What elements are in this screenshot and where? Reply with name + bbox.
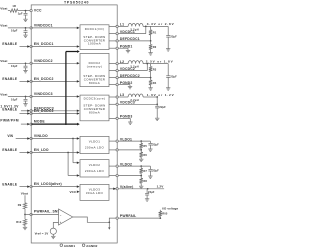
wire inductor to DCDC1 output node: [143, 26, 168, 28]
ground (22uF DCDC1): [166, 49, 170, 51]
svg-text:VCC: VCC: [34, 9, 42, 13]
svg-text:200mA LDO: 200mA LDO: [85, 169, 105, 173]
svg-text:VLDO2: VLDO2: [89, 163, 100, 167]
svg-text:R10: R10: [16, 220, 22, 224]
svg-text:AGND2: AGND2: [86, 244, 98, 248]
wire EN_DCDC2 to DCDC2 block: [31, 80, 79, 83]
pin PGND1: [109, 45, 132, 50]
pin PWRFAIL_SNS: [30, 210, 61, 216]
wire PWRFAIL to pull-up resistor: [118, 217, 161, 219]
wire DEFDCDC1 to feedback node: [118, 40, 151, 42]
pin VLDO2: [109, 162, 132, 167]
wire DEFDCDC2 to feedback node: [118, 77, 151, 79]
block DCDC3 step-down converter: [80, 95, 109, 121]
svg-text:R5: R5: [143, 144, 147, 148]
pin VDCDC1: [109, 30, 135, 35]
ground (R8): [139, 186, 143, 188]
wire ENABLE to EN_DCDC3 pin: [20, 112, 31, 115]
resistor R3 (feedback top): [149, 64, 157, 78]
svg-text:DCDC1(I/O): DCDC1(I/O): [85, 27, 105, 31]
wire PWM/PFM to MODE pin: [21, 123, 30, 126]
node Vbat (DCDC1 input): [0, 24, 30, 35]
svg-text:AGND1: AGND1: [64, 244, 76, 248]
ground (Vref): [51, 234, 55, 238]
pin V(alive): [109, 185, 133, 190]
svg-text:1000mA: 1000mA: [88, 42, 101, 46]
capacitor 22uF (DCDC3 output): [155, 104, 166, 118]
wire VIN to VINLDO pin: [16, 137, 30, 140]
svg-text:10µF: 10µF: [11, 64, 18, 68]
pin EN_LDO3(alive): [30, 182, 62, 188]
resistor 1R: [10, 4, 18, 12]
ground (22uF VLDO3): [145, 199, 149, 201]
wire MODE bus riser to DCDC2 block (bold): [66, 50, 80, 124]
pin EN_LDO: [30, 148, 49, 154]
svg-text:1µF: 1µF: [18, 11, 23, 15]
svg-text:Vbat: Vbat: [0, 92, 7, 96]
wire ENABLE to EN_DCDC1 pin: [20, 45, 31, 48]
svg-text:L3: L3: [120, 93, 124, 97]
wire ENABLE to EN_LDO3 pin: [20, 185, 31, 188]
wire PGND1 to ground: [118, 48, 128, 50]
svg-text:800mA: 800mA: [89, 81, 100, 85]
wire VLDO1 output: [118, 140, 150, 142]
svg-text:EN_DCDC2: EN_DCDC2: [34, 77, 54, 81]
svg-text:ENABLE: ENABLE: [2, 182, 17, 186]
svg-text:MODE: MODE: [34, 120, 45, 124]
pin L1: [109, 23, 124, 28]
wire EN_LDO3 to VLDO3 block: [31, 185, 79, 188]
wire EN_LDO branch to VLDO2 block: [68, 153, 80, 177]
svg-text:I/O voltage: I/O voltage: [162, 206, 178, 210]
wire L2 to inductor: [118, 63, 128, 65]
block DCDC2 step-down converter: [80, 53, 109, 86]
ground (22uF VLDO1): [148, 149, 152, 151]
wire EN_DCDC1 to DCDC1 block: [31, 45, 79, 48]
capacitor 22uF (VLDO2): [148, 166, 159, 176]
node I/O voltage: [162, 206, 178, 210]
wire PWRFAIL_SNS to comparator: [31, 214, 58, 216]
svg-text:2.5V or 1.8V: 2.5V or 1.8V: [146, 59, 174, 63]
IC body: [31, 5, 117, 243]
svg-text:VINDCDC3: VINDCDC3: [34, 92, 53, 96]
wire VLDO2 output: [118, 165, 150, 167]
ground (PGND1): [126, 50, 130, 52]
svg-text:200mA LDO: 200mA LDO: [85, 145, 105, 149]
svg-text:30mA LDO: 30mA LDO: [86, 191, 104, 195]
resistor R8 (VLDO2 divider bottom): [140, 176, 148, 187]
svg-text:VINDCDC1: VINDCDC1: [34, 24, 53, 28]
wire ENABLE to EN_LDO pin: [20, 151, 31, 154]
node 1.6V or 1.2V output: [147, 93, 175, 97]
svg-text:800mA: 800mA: [89, 110, 100, 114]
node PWM/PFM select: [0, 119, 19, 123]
svg-text:L2: L2: [120, 60, 124, 64]
wire inductor to DCDC3 output node: [143, 96, 158, 98]
svg-text:TPS650240: TPS650240: [64, 1, 89, 5]
node ENABLE (EN_DCDC1): [2, 42, 17, 46]
ground (R10): [23, 227, 27, 229]
ground (22uF DCDC3): [155, 118, 159, 120]
pin EN_DCDC3: [30, 109, 54, 115]
ground (R6): [139, 159, 143, 161]
pin VDCDC3: [109, 101, 135, 106]
node Vbat (VCC filter): [0, 6, 7, 10]
wire comparator output to PWRFAIL pin: [73, 217, 117, 223]
svg-text:ENABLE: ENABLE: [2, 148, 17, 152]
svg-text:VCC: VCC: [70, 190, 78, 194]
node Vref 1V source: [35, 228, 57, 235]
svg-text:VIN: VIN: [7, 134, 13, 138]
wire VLDO3 output to 1.2V node: [118, 188, 164, 190]
resistor R5 (VLDO1 divider top): [140, 141, 148, 150]
ground (PGND2): [128, 86, 132, 88]
svg-text:1.2V: 1.2V: [157, 184, 165, 188]
node 3.3V or 2.8V output: [147, 22, 175, 26]
wire VDCDC1 up to output node: [118, 26, 146, 33]
ground (1uF): [23, 19, 27, 21]
pin PWRFAIL: [116, 214, 136, 219]
pin PGND3: [109, 115, 132, 120]
node ENABLE (EN_LDO3 keep-alive): [2, 182, 17, 186]
wire PGND3 to ground: [118, 118, 130, 122]
svg-text:Vbat: Vbat: [0, 6, 7, 10]
pin DEFDCDC2: [109, 74, 140, 79]
node ENABLE (EN_DCDC2): [2, 77, 17, 81]
node Vbat (DCDC2 input): [0, 59, 30, 70]
svg-text:22µF: 22µF: [170, 75, 177, 79]
resistor R4 (feedback bottom): [149, 78, 157, 88]
resistor R1 (feedback top): [149, 26, 157, 41]
wire VINDCDC1 to DCDC1 block: [31, 27, 79, 30]
wire VDCDC2 up to output node: [118, 64, 147, 71]
wire feedback to divider node: [118, 175, 142, 177]
ground (10uF DCDC2): [23, 71, 27, 73]
capacitor 22uF (VLDO3): [145, 189, 155, 199]
svg-text:10µF: 10µF: [11, 97, 18, 101]
pin VINDCDC2: [30, 59, 53, 65]
wire ENABLE to EN_DCDC2 pin: [20, 80, 31, 83]
node Vbat (sense divider): [21, 192, 28, 196]
svg-text:VINDCDC2: VINDCDC2: [34, 59, 53, 63]
svg-text:VINLDO: VINLDO: [34, 134, 48, 138]
resistor R10: [16, 215, 26, 228]
capacitor 22uF (DCDC1 output): [166, 26, 177, 48]
wire L3 to inductor: [118, 96, 128, 98]
node Vbat (DCDC3 input): [0, 92, 30, 103]
wire R9 to sense node: [24, 209, 26, 216]
node 2.5V or 1.8V output: [146, 59, 174, 63]
ground (10uF DCDC3): [23, 104, 27, 106]
svg-text:ENABLE: ENABLE: [2, 77, 17, 81]
svg-text:22µF: 22µF: [152, 169, 159, 173]
svg-text:L1: L1: [120, 23, 124, 27]
pin L2: [109, 60, 124, 65]
wire 1.6V/1.3V to DEFDCDC3 pin: [21, 110, 30, 113]
pin DEFDCDC1: [109, 37, 140, 42]
svg-text:Vbat: Vbat: [0, 24, 7, 28]
wire EN_DCDC3 to DCDC3 block: [31, 112, 79, 115]
wire VINLDO branch to VLDO2 block: [73, 139, 80, 164]
svg-text:PWRFAIL_SNS: PWRFAIL_SNS: [34, 210, 61, 214]
pin AGND2: [82, 244, 97, 248]
wire Vbat to R9: [24, 195, 26, 203]
wire VINLDO to VLDO1 block: [31, 137, 79, 140]
wire VINDCDC2 to DCDC2 block: [31, 62, 79, 65]
node 1.2V keep-alive output: [157, 184, 165, 188]
open-drain pull-down arrow: [108, 222, 110, 230]
wire VDCDC3 up to output node: [118, 97, 158, 105]
svg-text:R1: R1: [153, 31, 157, 35]
svg-text:Vref = 1V: Vref = 1V: [35, 232, 49, 236]
resistor R9: [18, 203, 27, 209]
pin VINDCDC1: [30, 24, 53, 30]
svg-text:22µF: 22µF: [170, 34, 177, 38]
pin MODE: [30, 120, 45, 126]
svg-text:10µF: 10µF: [11, 29, 18, 33]
wire VCC internal feed to VLDO3 block: [70, 190, 80, 194]
wire Vref to comparator + input: [53, 223, 58, 229]
svg-text:EN_DCDC3: EN_DCDC3: [34, 109, 54, 113]
svg-text:PWRFAIL: PWRFAIL: [120, 214, 137, 218]
wire sense node to PWRFAIL_SNS pin: [25, 214, 30, 216]
block VLDO3 keep-alive LDO: [80, 184, 109, 200]
wire resistor to VCC pin: [18, 10, 30, 12]
IC part number TPS650240: [64, 1, 89, 5]
node ENABLE (EN_DCDC3): [2, 108, 17, 112]
resistor R7 (VLDO2 divider top): [140, 166, 148, 176]
node 1.6V/1.3V select: [0, 104, 19, 108]
pin VLDO1: [109, 137, 132, 142]
pin AGND1: [60, 244, 75, 248]
block VLDO2: [80, 160, 109, 177]
svg-text:1.6V or 1.2V: 1.6V or 1.2V: [147, 93, 175, 97]
wire Vbat to resistor 1R: [8, 10, 10, 12]
block VLDO1: [80, 136, 109, 153]
svg-text:22µF: 22µF: [159, 105, 166, 109]
svg-text:ENABLE: ENABLE: [2, 42, 17, 46]
capacitor 22uF (VLDO1): [148, 141, 159, 149]
svg-text:1R: 1R: [12, 4, 16, 8]
svg-text:EN_LDO: EN_LDO: [34, 148, 49, 152]
wire inductor to DCDC2 output node: [143, 63, 168, 65]
inductor 2.2uH (DCDC2): [128, 61, 143, 69]
wire feedback to divider node: [118, 149, 142, 151]
pin VINLDO: [30, 134, 48, 140]
node ENABLE (EN_LDO): [2, 148, 17, 152]
resistor R05 pull-up: [159, 210, 168, 218]
svg-text:Vbat: Vbat: [21, 192, 28, 196]
svg-text:R7: R7: [143, 169, 147, 173]
svg-text:EN_DCDC1: EN_DCDC1: [34, 42, 54, 46]
pin DEFDCDC3: [30, 106, 54, 112]
ground (22uF DCDC2): [166, 88, 170, 90]
svg-text:DCDC3(core): DCDC3(core): [84, 96, 106, 100]
wire DEFDCDC3 to DCDC3 block: [31, 110, 79, 113]
svg-text:R3: R3: [153, 68, 157, 72]
ground (PGND3): [128, 122, 132, 124]
inductor 2.2uH (DCDC1): [128, 23, 143, 31]
inductor 2.2uH (DCDC3): [128, 94, 143, 102]
svg-text:(memory): (memory): [87, 64, 102, 68]
svg-text:3.3V or 2.8V: 3.3V or 2.8V: [147, 22, 175, 26]
pin VLDO2 feedback: [109, 174, 118, 176]
svg-text:R4: R4: [153, 81, 157, 85]
svg-text:PWM/PFM: PWM/PFM: [0, 119, 19, 123]
wire PGND2 to ground: [118, 85, 130, 87]
capacitor 1uF: [18, 11, 28, 20]
svg-text:22µF: 22µF: [148, 190, 155, 194]
resistor R2 (feedback bottom): [149, 41, 157, 53]
pin PGND2: [109, 81, 132, 86]
wire L1 to inductor: [118, 25, 128, 27]
ground (R2): [148, 53, 152, 55]
pin VINDCDC3: [30, 92, 53, 98]
svg-text:R2: R2: [153, 45, 157, 49]
wire VINDCDC3 to DCDC3 block: [31, 95, 79, 98]
pin VCC: [30, 9, 42, 13]
op-amp PWRFAIL comparator: [59, 209, 73, 225]
svg-text:R8: R8: [143, 179, 147, 183]
svg-text:R9: R9: [18, 203, 22, 207]
svg-text:R6: R6: [143, 153, 147, 157]
wire EN_LDO to VLDO1 block: [31, 151, 79, 154]
svg-text:Vbat: Vbat: [0, 59, 7, 63]
svg-text:R05: R05: [162, 212, 168, 216]
block DCDC1 step-down converter: [80, 25, 109, 50]
svg-text:22µF: 22µF: [152, 143, 159, 147]
pin VDCDC2: [109, 67, 135, 72]
svg-text:ENABLE: ENABLE: [2, 108, 17, 112]
wire MODE bus to DCDC3 block (bold): [31, 123, 80, 126]
ground (R4): [148, 88, 152, 90]
capacitor 22uF (DCDC2 output): [166, 64, 177, 88]
resistor R6 (VLDO1 divider bottom): [140, 150, 148, 159]
pin EN_DCDC2: [30, 77, 54, 83]
pin L3: [109, 93, 124, 98]
ground (10uF DCDC1): [23, 35, 27, 37]
pin VLDO1 feedback: [109, 149, 118, 151]
ground (22uF VLDO2): [148, 176, 152, 178]
pin EN_DCDC1: [30, 42, 54, 48]
node VIN (LDO input): [7, 134, 13, 138]
svg-text:EN_LDO3(alive): EN_LDO3(alive): [34, 182, 62, 186]
svg-text:VLDO1: VLDO1: [89, 139, 100, 143]
